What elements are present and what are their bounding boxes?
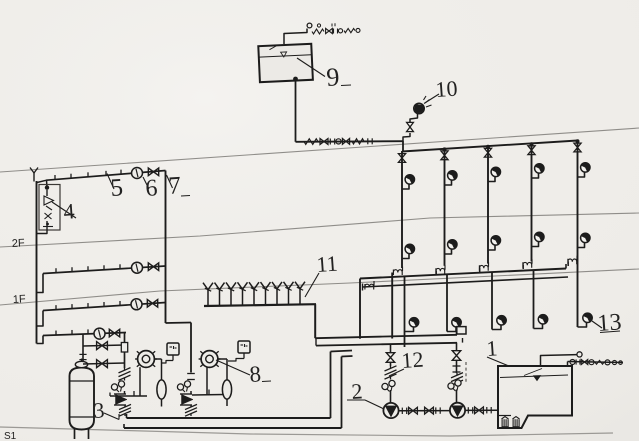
svg-text:6: 6 — [145, 175, 159, 202]
svg-text:4: 4 — [63, 198, 76, 224]
svg-text:12: 12 — [401, 347, 425, 373]
svg-text:11: 11 — [316, 251, 339, 277]
svg-text:9: 9 — [325, 62, 340, 92]
svg-text:5: 5 — [110, 174, 124, 202]
svg-text:2F: 2F — [12, 237, 26, 250]
svg-text:7: 7 — [168, 172, 182, 200]
svg-text:10: 10 — [435, 76, 459, 102]
svg-text:3: 3 — [93, 397, 106, 423]
svg-text:8: 8 — [249, 361, 262, 387]
svg-text:S1: S1 — [4, 431, 17, 441]
svg-text:1F: 1F — [13, 293, 27, 306]
